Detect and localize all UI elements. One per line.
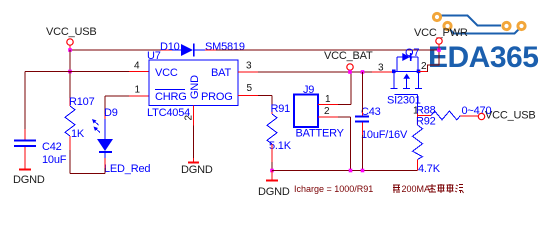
diode D10 SM5819	[160, 41, 245, 57]
wire top rail continues	[216, 49, 439, 51]
capacitor C42	[14, 141, 67, 170]
svg-text:PROG: PROG	[201, 91, 233, 103]
svg-text:2: 2	[324, 106, 330, 117]
wire left branch down	[24, 72, 26, 141]
svg-text:200MA: 200MA	[402, 184, 431, 194]
wire Q7 drain up to top rail	[419, 50, 440, 72]
svg-text:C42: C42	[42, 141, 62, 153]
node bus junction C43	[361, 169, 365, 173]
svg-text:10uF/16V: 10uF/16V	[361, 129, 408, 141]
svg-text:1K: 1K	[71, 128, 85, 140]
annotation CJK glyphs	[393, 185, 400, 193]
wire from CHRG pin 1	[105, 96, 149, 119]
ground bus wire	[272, 170, 418, 172]
svg-text:VCC_BAT: VCC_BAT	[324, 50, 373, 62]
svg-text:D9: D9	[104, 107, 118, 119]
wire PROG pin 5 to R91	[238, 96, 272, 115]
wire top rail y=50	[70, 49, 161, 51]
node bus junction J9	[349, 169, 353, 173]
resistor R91	[267, 103, 292, 171]
svg-text:4: 4	[134, 61, 140, 72]
wire BAT pin 3 to VCC_BAT	[238, 71, 392, 73]
resistor R107	[65, 96, 95, 174]
transistor Q2 / MOSFET Q7 SI2301	[387, 47, 422, 108]
svg-text:CHRG: CHRG	[155, 91, 187, 103]
node bus junction R91	[270, 169, 274, 173]
svg-text:DGND: DGND	[181, 164, 213, 176]
net VCC_BAT port	[324, 50, 373, 72]
svg-text:R91: R91	[271, 103, 291, 115]
svg-text:EDA365: EDA365	[428, 41, 538, 74]
svg-text:R107: R107	[69, 96, 95, 108]
EDA365 logo traces	[437, 16, 522, 34]
svg-text:VCC_USB: VCC_USB	[485, 110, 536, 122]
svg-text:4.7K: 4.7K	[418, 163, 441, 175]
svg-text:5: 5	[247, 83, 253, 94]
wire	[161, 49, 172, 51]
net VCC_USB (top left port)	[46, 26, 97, 50]
svg-text:SM5819: SM5819	[205, 41, 245, 53]
svg-text:LED_Red: LED_Red	[104, 163, 150, 175]
wire	[69, 50, 71, 72]
node junction C43 top	[361, 70, 365, 74]
wire to pin 4	[25, 71, 149, 73]
node junction VCC_PWR	[437, 48, 441, 52]
svg-text:10uF: 10uF	[42, 154, 67, 166]
wire Q7 gate node	[417, 108, 419, 126]
capacitor C43	[355, 72, 408, 171]
wire	[205, 49, 216, 51]
ground DGND left	[13, 170, 45, 187]
wire bottom left	[70, 173, 105, 175]
svg-text:BAT: BAT	[211, 67, 231, 79]
svg-text:3: 3	[246, 61, 252, 72]
svg-text:D10: D10	[160, 41, 180, 53]
net VCC_PWR port	[414, 27, 468, 50]
node junction	[68, 70, 72, 74]
svg-text:1: 1	[135, 85, 141, 96]
svg-text:1: 1	[325, 94, 331, 105]
LED D9 LED_Red	[92, 107, 150, 175]
wire J9 pin2 to ground bus	[318, 117, 351, 171]
IC U7 LTC4054	[147, 50, 238, 119]
svg-text:DGND: DGND	[258, 186, 290, 198]
wire J9 pin1 to VCC_BAT	[318, 72, 351, 105]
svg-text:VCC_USB: VCC_USB	[46, 26, 97, 38]
node VCC_USB junction	[68, 48, 72, 52]
ground DGND under R91	[258, 171, 290, 199]
svg-text:DGND: DGND	[13, 174, 45, 186]
connector J9 BATTERY	[294, 84, 345, 140]
svg-text:BATTERY: BATTERY	[296, 128, 345, 140]
node junction VCC_BAT	[348, 70, 352, 74]
svg-text:VCC: VCC	[155, 67, 178, 79]
wire down to R107	[69, 72, 71, 107]
svg-text:GND: GND	[189, 75, 201, 99]
ground DGND under U7	[181, 163, 213, 177]
svg-text:Icharge = 1000/R91: Icharge = 1000/R91	[294, 184, 373, 194]
net VCC_USB right port	[478, 110, 535, 122]
EDA365 logo pads	[433, 13, 525, 29]
svg-text:VCC_PWR: VCC_PWR	[414, 27, 468, 39]
svg-text:2: 2	[421, 61, 427, 72]
resistor R92	[413, 116, 441, 176]
svg-text:2: 2	[184, 115, 195, 121]
wire GND pin 2 down	[193, 106, 195, 163]
svg-text:3: 3	[378, 63, 384, 74]
resistor R88	[416, 105, 491, 120]
